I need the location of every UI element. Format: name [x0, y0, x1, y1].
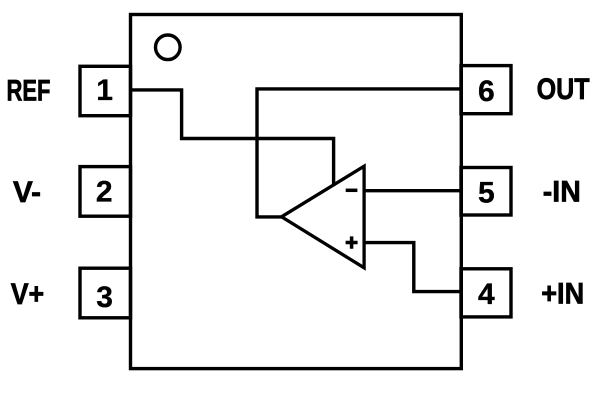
svg-text:-IN: -IN [543, 176, 581, 209]
op-amp inverting input marker - [346, 189, 358, 193]
svg-text:OUT: OUT [537, 73, 590, 106]
svg-text:V+: V+ [11, 278, 45, 311]
wire REF pin1 to op-amp top [131, 90, 334, 185]
wire inverting input to pin5 [364, 189, 461, 192]
pin 6 box [461, 66, 511, 114]
pin 3 box [80, 268, 131, 318]
wire non-inverting input to pin4 [364, 243, 461, 292]
wire op-amp output to pin6 OUT [257, 89, 461, 217]
op-amp A1 triangle [282, 166, 365, 268]
svg-text:2: 2 [96, 176, 113, 209]
pin 4 box [461, 269, 511, 317]
pin 2 box [80, 167, 131, 217]
svg-text:+IN: +IN [541, 278, 584, 311]
svg-text:1: 1 [96, 74, 113, 107]
svg-text:4: 4 [478, 278, 495, 311]
pin 1 box [80, 66, 131, 115]
svg-text:5: 5 [478, 177, 495, 210]
svg-text:6: 6 [478, 75, 495, 108]
svg-text:3: 3 [96, 281, 113, 314]
pin-1 indicator circle [156, 35, 181, 60]
op-amp non-inverting input marker + [346, 236, 358, 248]
IC body U1 [131, 15, 462, 369]
pin 5 box [461, 168, 511, 216]
svg-text:V-: V- [13, 176, 41, 209]
svg-text:REF: REF [7, 75, 51, 108]
